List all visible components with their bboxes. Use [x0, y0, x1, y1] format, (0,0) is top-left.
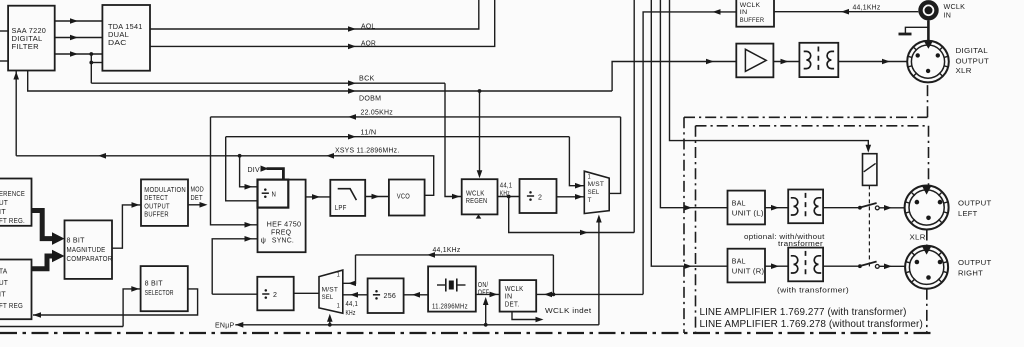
svg-text:1: 1: [337, 272, 340, 279]
boundary dash-dot line amplifier box: [696, 126, 929, 333]
wire 22.05KHz right riser from M/ST SEL output: [609, 117, 620, 193]
svg-text:OFF: OFF: [478, 290, 490, 297]
wire BAL L to transformer L: [765, 205, 788, 211]
divider U10 divide-by-2: [520, 179, 557, 213]
wire 44.1KHz line into M/ST SEL pin1: [343, 255, 356, 286]
wire XSYS drop into divider N: [240, 156, 258, 190]
node junction ENuP to crystal on/off: [484, 323, 488, 327]
shift register (data input) cut at left edge: [0, 260, 32, 320]
svg-text:AOL: AOL: [361, 23, 376, 30]
svg-text:FT REG: FT REG: [0, 303, 23, 310]
wire selector input riser: [0, 286, 141, 326]
wire SAA input 2: [0, 60, 8, 62]
connector J1 WCLK IN BNC: [921, 2, 966, 19]
wire AOR: [150, 0, 495, 49]
wire ENuP riser to M/ST SEL: [327, 314, 333, 325]
svg-text:OUTPUT: OUTPUT: [956, 58, 990, 65]
svg-text:LINE AMPLIFIER 1.769.277 (with: LINE AMPLIFIER 1.769.277 (with transform…: [700, 307, 907, 318]
svg-text:TA: TA: [0, 269, 8, 276]
wire ENuP riser to M/ST SEL T: [596, 215, 602, 325]
wire selector output wrap to data shift reg: [33, 289, 198, 318]
connector J2 digital output XLR: [907, 41, 989, 83]
svg-text:DIV: DIV: [248, 167, 261, 174]
svg-text:DAC: DAC: [108, 40, 127, 47]
svg-text:N: N: [272, 192, 277, 199]
wire 44.1 branch riser: [552, 255, 554, 295]
amplifier A1 output driver: [736, 44, 773, 78]
wire MOD DET output: [188, 187, 208, 208]
svg-text:TDA 1541: TDA 1541: [108, 24, 143, 31]
svg-text:BUFFER: BUFFER: [144, 212, 169, 219]
wire DOBM drop into WCLK REGEN top: [477, 91, 483, 178]
svg-text:AOR: AOR: [361, 40, 376, 47]
wire 44,1KHz from WCLK riser: [356, 247, 554, 257]
svg-text:ON/: ON/: [478, 282, 489, 289]
svg-text:(with transformer): (with transformer): [777, 288, 849, 295]
wire BAL R to transformer R: [765, 263, 788, 269]
svg-text:22.05KHz: 22.05KHz: [361, 110, 394, 117]
regenerator U9 WCLK REGEN: [462, 179, 498, 218]
wire SAA to TDA bus 3: [55, 51, 103, 57]
node junction 44.1 branch: [552, 293, 556, 297]
wire BNC to WCLK IN BUFFER 44.1KHz: [774, 5, 918, 15]
svg-text:BAL: BAL: [732, 200, 746, 207]
svg-text:1: 1: [588, 173, 591, 180]
wire DOBM: [28, 71, 612, 103]
buffer U16 WCLK IN BUFFER: [736, 0, 774, 27]
svg-text:KHz: KHz: [346, 310, 356, 317]
wire analog left riser to BAL UNIT L: [660, 0, 727, 211]
svg-text:COMPARATOR: COMPARATOR: [67, 256, 113, 263]
svg-text:REGEN: REGEN: [466, 198, 488, 205]
svg-text:11.2896MHz: 11.2896MHz: [432, 304, 468, 311]
svg-text:UNIT (L): UNIT (L): [732, 211, 764, 218]
comparator U3 8 bit magnitude: [65, 220, 113, 279]
transformer T1 digital output: [799, 43, 838, 77]
wire transformer to digital XLR: [838, 59, 907, 65]
svg-text:M/ST: M/ST: [588, 181, 605, 188]
multiplexer U11 M/ST SEL T: [584, 171, 609, 213]
svg-text:M/ST: M/ST: [322, 286, 339, 293]
svg-text:SELECTOR: SELECTOR: [145, 290, 174, 297]
boundary dash-dot digital board: [684, 82, 928, 333]
wire 44.1 down and right to riser: [509, 197, 635, 236]
filter U7 LPF: [330, 180, 365, 216]
wire WCLK IN DET input from buffer riser: [536, 292, 643, 298]
wire XSYS riser into SAA bottom: [13, 71, 19, 156]
amplifier U17 BAL UNIT L: [728, 191, 766, 225]
svg-text:44,1KHz: 44,1KHz: [433, 247, 461, 254]
selector U5 8 bit: [141, 266, 188, 311]
ground chassis: [899, 27, 929, 34]
wire HEF input from divide-by-2: [212, 236, 257, 294]
svg-text:SAA 7220: SAA 7220: [12, 28, 47, 35]
node junction TDA second input: [89, 61, 93, 65]
wire 11/N: [226, 129, 570, 139]
wire HEF to LPF: [306, 194, 331, 200]
wire M/ST SEL to lower div2: [294, 292, 319, 294]
PLL U6 HEF4750 freq sync: [258, 180, 306, 253]
svg-text:LPF: LPF: [335, 205, 347, 212]
wire BCK: [91, 76, 445, 86]
amplifier U18 BAL UNIT R: [728, 249, 766, 283]
wire ENuP riser to crystal on/off: [483, 297, 489, 325]
svg-text:UT: UT: [0, 280, 8, 287]
svg-text:LINE AMPLIFIER 1.769.278 (with: LINE AMPLIFIER 1.769.278 (without transf…: [700, 319, 923, 330]
wire crystal to div256: [404, 292, 429, 298]
svg-text:WCLK: WCLK: [944, 4, 966, 11]
wire div256 to M/ST SEL with 44.1 label: [343, 292, 368, 317]
svg-text:BAL: BAL: [732, 258, 746, 265]
svg-text:T: T: [588, 197, 592, 204]
dual DAC U2 TDA1541: [102, 5, 150, 71]
wire 22.05KHz: [211, 110, 621, 120]
wire SAA input 1: [0, 30, 8, 32]
wire 22.05KHz left drop to HEF input: [211, 117, 258, 228]
svg-text:RIGHT: RIGHT: [958, 271, 984, 278]
svg-text:256: 256: [384, 293, 397, 300]
svg-text:DETECT: DETECT: [144, 195, 168, 202]
svg-text:SEL: SEL: [322, 294, 334, 301]
wire DOBM step up to output amp: [612, 62, 736, 92]
wire amp to digital transformer: [773, 59, 799, 65]
svg-text:DET: DET: [191, 195, 204, 202]
svg-text:XLR: XLR: [956, 68, 972, 75]
wire 11/N right drop into M/ST SEL T: [569, 137, 584, 189]
svg-text:11/N: 11/N: [361, 129, 377, 136]
svg-text:WCLK: WCLK: [740, 2, 761, 9]
connector J3 output left XLR: [905, 186, 992, 242]
wire WCLK indet output: [512, 308, 591, 322]
wire thick bus reference reg to comparator: [32, 211, 65, 245]
wire SAA to TDA bus 1: [55, 18, 103, 24]
svg-text:2: 2: [538, 194, 542, 201]
wire WCLK REGEN output 44.1KHz: [498, 182, 520, 197]
transformer T3 right output: [788, 248, 823, 282]
svg-text:BUFFER: BUFFER: [740, 17, 765, 24]
svg-text:WCLK: WCLK: [505, 286, 524, 293]
svg-text:ψ: ψ: [261, 236, 267, 245]
svg-text:2: 2: [273, 292, 277, 299]
svg-text:FREQ: FREQ: [271, 229, 291, 236]
switch S1 left output: [823, 203, 904, 211]
svg-text:WCLK: WCLK: [466, 190, 485, 197]
node junction DOBM: [478, 89, 482, 93]
wire analog right riser to BAL UNIT R: [651, 0, 727, 269]
svg-text:VCO: VCO: [397, 194, 410, 201]
wire mechanical link dashed: [868, 185, 870, 268]
crystal Y1 11.2896MHz: [428, 266, 476, 311]
svg-text:UT: UT: [0, 200, 8, 207]
svg-text:HEF 4750: HEF 4750: [267, 221, 302, 228]
svg-text:DOBM: DOBM: [359, 96, 381, 103]
node junction 44.1 output: [507, 195, 511, 199]
svg-text:FT REG.: FT REG.: [0, 218, 25, 225]
svg-text:SYNC.: SYNC.: [272, 238, 294, 245]
wire divide-by-2 to M/ST SEL T: [557, 194, 585, 200]
svg-text:8 BIT: 8 BIT: [145, 281, 164, 288]
divider U14 divide-by-256: [368, 278, 404, 313]
svg-text:OUTPUT: OUTPUT: [958, 260, 992, 267]
svg-text:8 BIT: 8 BIT: [67, 238, 86, 245]
svg-text:IN: IN: [740, 9, 748, 16]
svg-text:DUAL: DUAL: [108, 32, 129, 39]
svg-text:ENµP: ENµP: [215, 323, 235, 330]
node junction XSYS: [238, 154, 242, 158]
svg-text:44,1: 44,1: [346, 301, 359, 308]
svg-text:OUTPUT: OUTPUT: [958, 200, 992, 207]
svg-text:WCLK indet: WCLK indet: [545, 308, 591, 315]
wire thick arrow into digital XLR: [924, 41, 934, 49]
wire 11/N left drop into divider N: [226, 137, 258, 201]
wire VCO output riser to XSYS: [425, 156, 434, 196]
svg-text:MOD: MOD: [191, 187, 204, 194]
wire XSYS 11.2896MHz: [16, 148, 434, 159]
wire branch to TDA input 2: [91, 54, 102, 83]
svg-text:1: 1: [337, 303, 340, 310]
multiplexer U13 M/ST SEL: [319, 270, 343, 313]
shift register (reference input) cut at left edge: [0, 179, 32, 226]
transformer T2 left output: [788, 190, 823, 224]
wire DIV thick control into divider N: [248, 166, 284, 180]
wire BCK drop into WCLK REGEN: [445, 83, 462, 199]
svg-text:BCK: BCK: [359, 76, 375, 83]
oscillator U8 VCO: [389, 180, 425, 216]
resistor R1 level trimmer: [863, 154, 877, 186]
wire mute riser to trimmer: [670, 0, 872, 153]
svg-text:FILTER: FILTER: [12, 44, 39, 51]
svg-text:DET.: DET.: [505, 302, 520, 309]
wire crystal to WCLK IN DET with ON/OFF: [476, 282, 500, 297]
detector U15 WCLK IN DET: [500, 280, 537, 312]
svg-text:IT: IT: [0, 292, 6, 299]
wire AOL: [150, 0, 479, 32]
wire ENuP control line: [215, 322, 599, 330]
svg-text:IN: IN: [944, 13, 952, 20]
svg-text:DIGITAL: DIGITAL: [956, 48, 989, 55]
wire WCLK IN BUFFER output riser: [643, 9, 736, 294]
wire comparator to modulation buffer: [112, 202, 141, 248]
boundary dash-dot bottom border: [0, 332, 931, 334]
svg-text:44,1: 44,1: [500, 182, 513, 189]
svg-text:UNIT (R): UNIT (R): [732, 269, 765, 276]
svg-text:XLR: XLR: [910, 234, 926, 241]
svg-text:44,1KHz: 44,1KHz: [853, 5, 881, 12]
svg-text:optional: with/without: optional: with/without: [744, 234, 825, 241]
digital filter U1 SAA7220: [8, 6, 55, 71]
wire SAA to TDA bus 2: [55, 35, 103, 41]
svg-text:DIGITAL: DIGITAL: [12, 36, 43, 43]
node junction ENuP to M/ST SEL: [328, 323, 332, 327]
svg-text:IT: IT: [0, 209, 6, 216]
switch S2 right output: [823, 262, 905, 270]
wire thick bus data reg to comparator: [32, 250, 65, 269]
svg-text:MODULATION: MODULATION: [144, 187, 186, 194]
connector J4 output right XLR: [905, 246, 992, 289]
wire BNC stem to digital XLR: [927, 21, 930, 42]
buffer U4 modulation detect output: [141, 179, 188, 226]
svg-text:OUTPUT: OUTPUT: [144, 203, 170, 210]
node junction on bus 3: [89, 52, 93, 56]
svg-text:MAGNITUDE: MAGNITUDE: [67, 247, 106, 254]
wire riser 44.1 up to top edge: [633, 0, 635, 233]
svg-text:XSYS 11.2896MHz.: XSYS 11.2896MHz.: [335, 148, 400, 155]
svg-text:IN: IN: [505, 294, 513, 301]
wire LPF to VCO: [365, 194, 389, 200]
svg-text:LEFT: LEFT: [958, 211, 978, 218]
divider U12 lower divide-by-2: [257, 277, 293, 311]
svg-text:SEL: SEL: [588, 189, 600, 196]
wire lower div2 output to HEF riser: [212, 293, 257, 295]
svg-text:ERENCE: ERENCE: [0, 191, 25, 198]
